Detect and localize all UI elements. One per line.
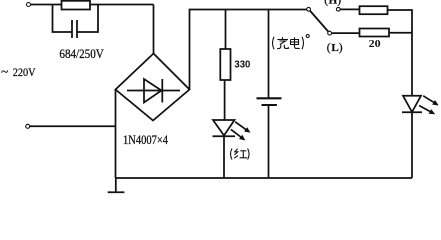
svg-text:L: L: [331, 42, 338, 54]
svg-text:330: 330: [234, 59, 250, 70]
svg-text:~: ~: [1, 64, 8, 79]
svg-text:220V: 220V: [13, 67, 36, 79]
svg-text:): ): [339, 42, 343, 54]
svg-text:20: 20: [369, 38, 382, 50]
svg-text:(: (: [327, 42, 331, 54]
svg-text:): ): [337, 0, 341, 6]
svg-text:(: (: [324, 0, 328, 6]
svg-text:684/250V: 684/250V: [59, 47, 103, 61]
svg-text:1N4007×4: 1N4007×4: [123, 133, 169, 147]
